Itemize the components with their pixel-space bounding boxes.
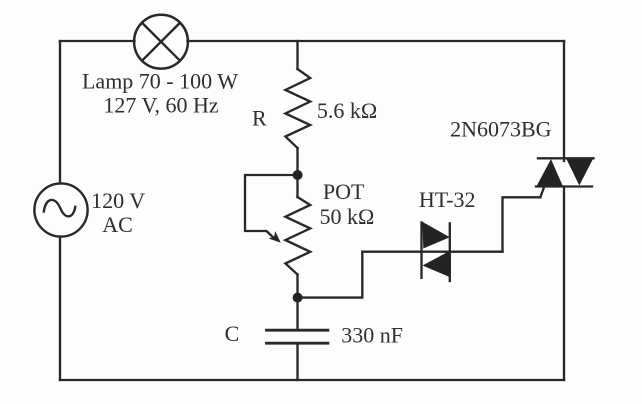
svg-text:2N6073BG: 2N6073BG [450, 116, 552, 141]
lamp cross line 1 [142, 23, 180, 61]
svg-text:330 nF: 330 nF [341, 322, 403, 347]
capacitor C bottom plate [267, 342, 328, 345]
svg-text:50 kΩ: 50 kΩ [320, 204, 375, 229]
wire left vertical upper [59, 41, 61, 184]
wiper arm wire [245, 175, 298, 238]
svg-text:120 V: 120 V [91, 188, 145, 213]
svg-text:Lamp 70 - 100 W: Lamp 70 - 100 W [82, 69, 238, 94]
diac D1 top triangle [422, 222, 450, 249]
triac bottom bar [536, 185, 592, 187]
node B junction dot (POT / capacitor / diac branch) [293, 293, 303, 303]
svg-text:5.6 kΩ: 5.6 kΩ [317, 98, 377, 123]
triac Q1 left triangle [536, 159, 563, 186]
wiper arrowhead [269, 231, 281, 243]
capacitor C top plate [267, 329, 328, 332]
svg-text:POT: POT [323, 179, 365, 204]
lamp cross line 2 [142, 23, 180, 61]
potentiometer POT zigzag [285, 197, 310, 275]
wire diac to triac gate [503, 197, 541, 251]
wire top-left segment [60, 40, 135, 42]
wire triac gate diagonal [540, 187, 544, 197]
wire pot node to diac [298, 252, 503, 298]
triac top bar [538, 157, 594, 159]
wire middle branch top [296, 41, 298, 69]
diac left bar [420, 223, 422, 278]
diac right bar [449, 223, 451, 281]
AC source circle [34, 183, 87, 236]
wire capacitor to bottom [296, 344, 298, 381]
svg-text:C: C [225, 321, 240, 346]
lamp circle [134, 15, 188, 69]
wire right vertical upper [563, 41, 565, 161]
wire top-right segment [188, 40, 565, 42]
wire between resistor and pot [296, 148, 298, 197]
svg-text:AC: AC [102, 212, 133, 237]
AC source sine wave [44, 200, 76, 216]
triac Q1 right triangle [566, 159, 593, 186]
resistor R zigzag [285, 69, 310, 148]
svg-text:HT-32: HT-32 [419, 187, 476, 212]
svg-text:R: R [252, 105, 267, 130]
svg-text:127 V, 60 Hz: 127 V, 60 Hz [103, 93, 219, 118]
diac D1 bottom triangle [423, 251, 451, 277]
wire pot to capacitor [296, 275, 298, 331]
wire bottom horizontal [60, 379, 564, 381]
wire left vertical lower [59, 237, 61, 381]
wire right vertical lower [563, 187, 565, 381]
node A junction dot (R / POT / wiper) [293, 170, 303, 180]
